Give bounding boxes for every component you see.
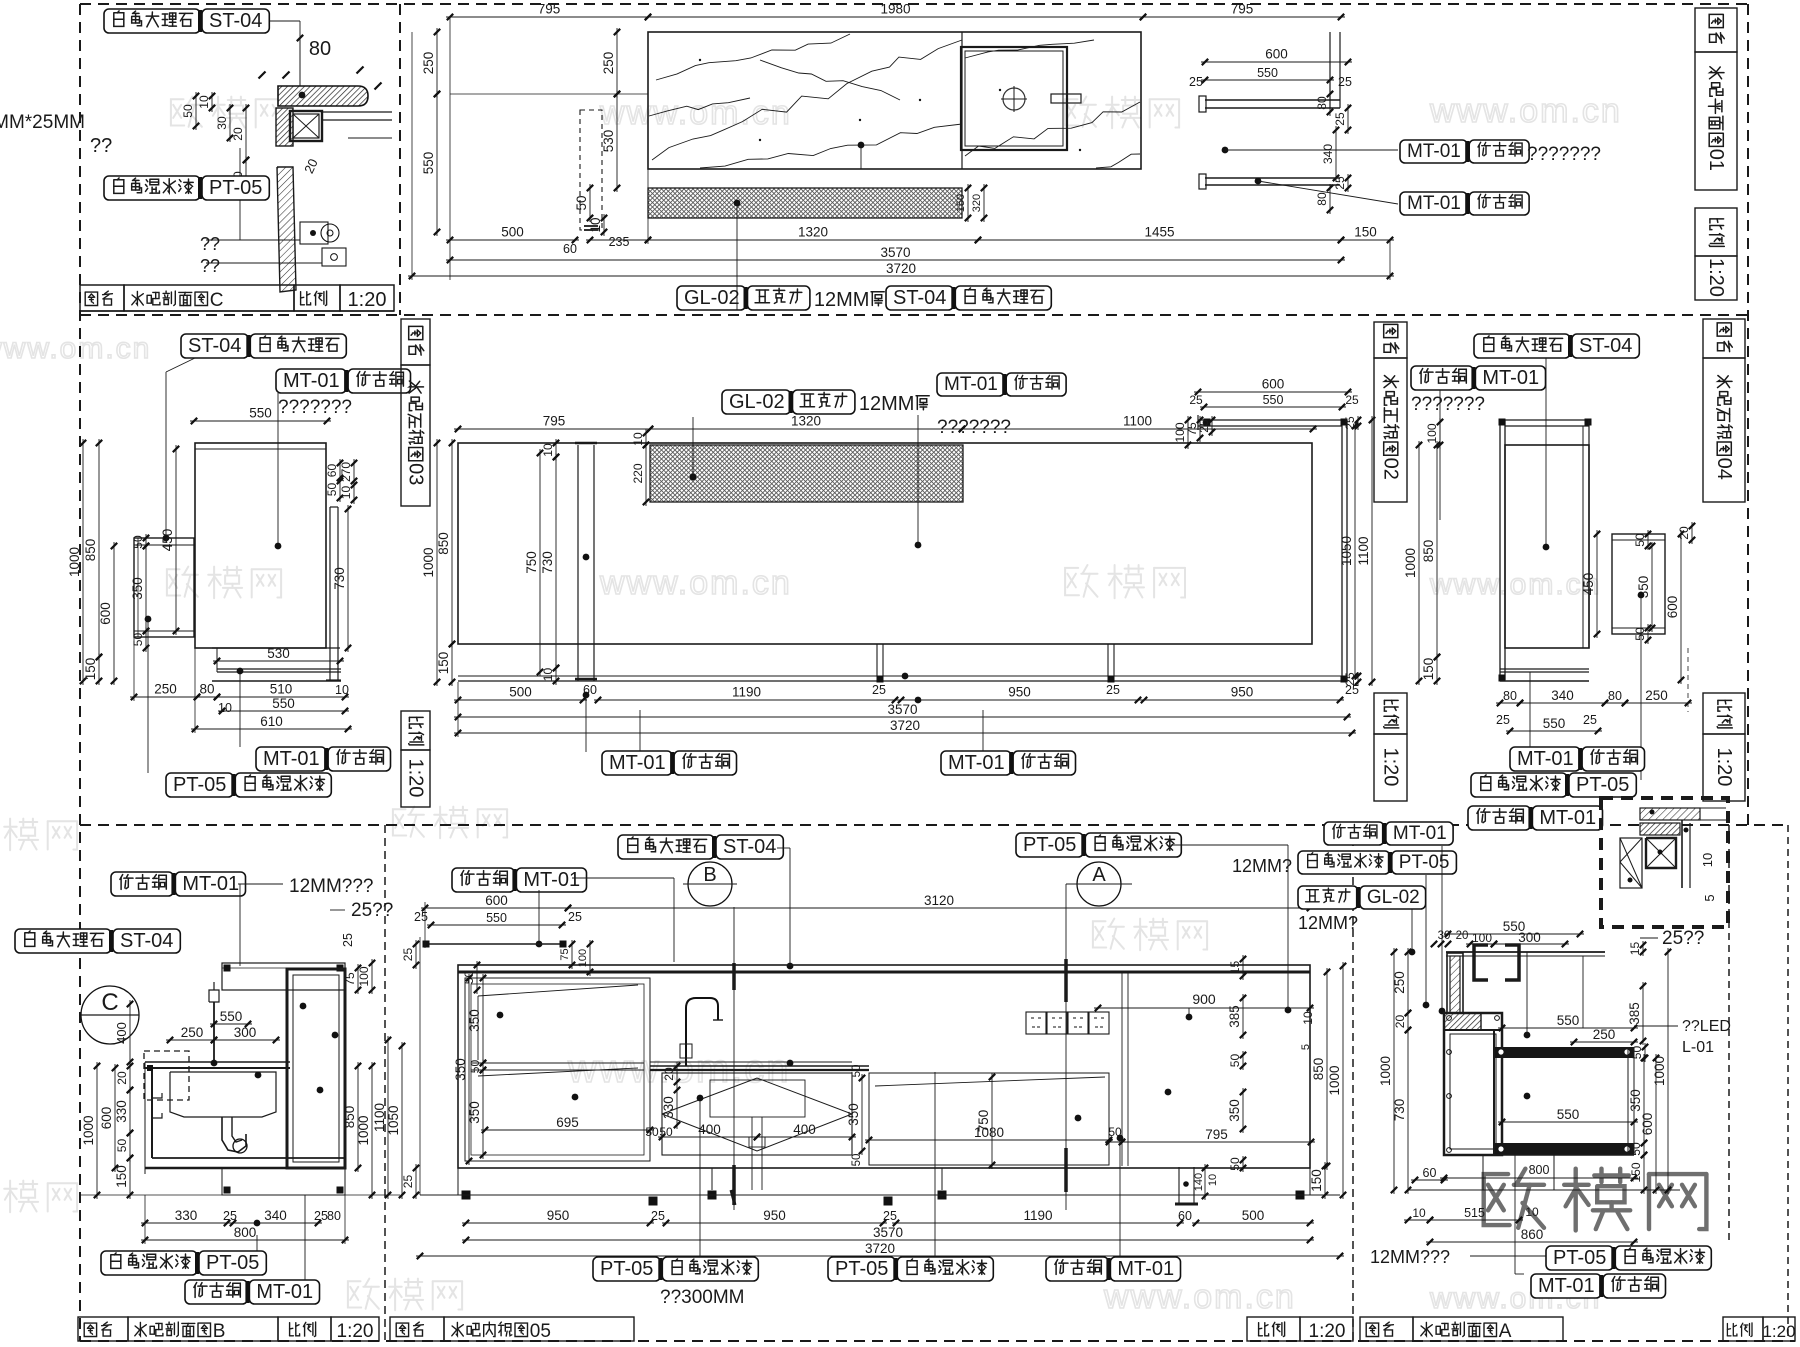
strip 03 bbox=[401, 319, 430, 365]
svg-text:1980: 1980 bbox=[880, 2, 910, 17]
svg-text:PT-05: PT-05 bbox=[835, 1258, 888, 1280]
svg-text:10: 10 bbox=[1525, 1205, 1539, 1219]
svg-text:25MM*25MM: 25MM*25MM bbox=[0, 112, 85, 133]
counter mid line bbox=[650, 1061, 852, 1063]
svg-text:ST-04: ST-04 bbox=[188, 335, 241, 357]
svg-text:1190: 1190 bbox=[1023, 1208, 1052, 1223]
svg-text:25??: 25?? bbox=[351, 900, 393, 921]
dim 550 top bbox=[190, 420, 331, 422]
svg-text:250: 250 bbox=[154, 682, 177, 697]
svg-text:150: 150 bbox=[1354, 225, 1377, 240]
svg-text:1000: 1000 bbox=[1327, 1065, 1342, 1095]
detail marker A bbox=[1077, 862, 1121, 906]
svg-text:04: 04 bbox=[1713, 458, 1735, 480]
svg-text:MT-01: MT-01 bbox=[256, 1281, 313, 1303]
watermark 欧模网 mid-left bbox=[167, 569, 180, 595]
svg-text:1080: 1080 bbox=[974, 1125, 1004, 1140]
dims bottom bbox=[454, 699, 587, 701]
svg-text:10: 10 bbox=[339, 486, 353, 500]
section B right dims bbox=[357, 1062, 359, 1172]
svg-text:PT-05: PT-05 bbox=[600, 1258, 653, 1280]
svg-text:15: 15 bbox=[1628, 942, 1642, 956]
far right divider bbox=[1121, 972, 1123, 1166]
svg-text:PT-05: PT-05 bbox=[1023, 834, 1076, 856]
view 02 left pillar bbox=[577, 445, 579, 681]
svg-text:795: 795 bbox=[1205, 1127, 1228, 1142]
svg-text:600: 600 bbox=[1640, 1113, 1655, 1136]
svg-text:MT-01: MT-01 bbox=[609, 752, 666, 774]
svg-text:GL-02: GL-02 bbox=[1367, 887, 1420, 908]
svg-text:12MM: 12MM bbox=[859, 393, 915, 415]
section B counter bbox=[145, 1061, 290, 1063]
svg-text:150: 150 bbox=[114, 1165, 129, 1188]
svg-text:50: 50 bbox=[1228, 1054, 1242, 1068]
vein dots bbox=[699, 59, 701, 61]
svg-text:25: 25 bbox=[1197, 419, 1211, 433]
dim 795 bbox=[454, 428, 654, 430]
section B labels top bbox=[111, 872, 173, 896]
svg-text:02: 02 bbox=[1380, 458, 1402, 480]
svg-text:MT-01: MT-01 bbox=[948, 752, 1005, 774]
svg-text:1000: 1000 bbox=[67, 547, 82, 577]
leg with dims bbox=[1178, 1167, 1180, 1204]
hinge bbox=[300, 222, 328, 244]
svg-text:1050: 1050 bbox=[386, 1105, 401, 1135]
svg-text:330: 330 bbox=[661, 1096, 676, 1119]
svg-text:25: 25 bbox=[1106, 683, 1120, 697]
svg-text:MT-01: MT-01 bbox=[182, 873, 239, 895]
svg-text:250: 250 bbox=[1593, 1027, 1616, 1042]
section A left post hatch bbox=[1450, 956, 1460, 1013]
view 05 top labels bbox=[618, 835, 714, 859]
svg-text:80: 80 bbox=[199, 682, 214, 697]
section A dots bbox=[1524, 1032, 1531, 1039]
section cut line A bbox=[1065, 884, 1067, 1210]
dim 550 bbox=[436, 90, 438, 236]
dim 1000 bbox=[436, 439, 438, 686]
view 04 bottom labels bbox=[1510, 747, 1580, 771]
svg-text:550: 550 bbox=[220, 1009, 243, 1024]
svg-text:???????: ??????? bbox=[278, 397, 352, 418]
svg-text:50: 50 bbox=[1633, 533, 1647, 547]
blocking cross box bbox=[293, 114, 319, 138]
svg-text:25: 25 bbox=[1189, 75, 1203, 89]
svg-text:50: 50 bbox=[181, 104, 195, 118]
svg-text:795: 795 bbox=[1231, 2, 1254, 17]
svg-text:PT-05: PT-05 bbox=[173, 774, 226, 796]
svg-text:MT-01: MT-01 bbox=[1407, 141, 1461, 162]
svg-text:03: 03 bbox=[405, 463, 427, 485]
svg-text:25: 25 bbox=[1583, 713, 1597, 727]
svg-text:300: 300 bbox=[1518, 930, 1541, 945]
svg-text:750: 750 bbox=[524, 551, 539, 574]
svg-text:350: 350 bbox=[1628, 1089, 1643, 1112]
svg-text:550: 550 bbox=[272, 696, 295, 711]
svg-text:12MM???: 12MM??? bbox=[289, 876, 374, 897]
svg-text:10: 10 bbox=[631, 432, 645, 446]
svg-text:300: 300 bbox=[234, 1025, 257, 1040]
svg-text:795: 795 bbox=[543, 414, 566, 429]
svg-text:150: 150 bbox=[1421, 658, 1436, 681]
plan view 01 counter outline bbox=[648, 32, 1141, 169]
svg-text:500: 500 bbox=[509, 685, 532, 700]
svg-text:80: 80 bbox=[1315, 192, 1329, 206]
shelf lines right bbox=[322, 111, 392, 113]
svg-text:950: 950 bbox=[763, 1208, 786, 1223]
svg-text:385: 385 bbox=[1227, 1005, 1242, 1028]
wall substrate hatch bbox=[276, 108, 293, 146]
svg-text:MT-01: MT-01 bbox=[1538, 1275, 1595, 1297]
view 04 dims bbox=[1439, 418, 1441, 449]
svg-text:www.om.cn: www.om.cn bbox=[599, 94, 792, 132]
svg-text:600: 600 bbox=[98, 602, 113, 625]
svg-text:550: 550 bbox=[1557, 1013, 1580, 1028]
detail marker B bbox=[688, 862, 732, 906]
svg-text:MT-01: MT-01 bbox=[1393, 823, 1447, 844]
svg-text:695: 695 bbox=[556, 1115, 579, 1130]
svg-text:3120: 3120 bbox=[924, 893, 954, 908]
title bar A bbox=[1360, 1317, 1413, 1341]
section B top slab bbox=[222, 963, 345, 990]
view 02 acrylic bar bbox=[650, 445, 963, 502]
svg-text:MT-01: MT-01 bbox=[263, 748, 320, 770]
svg-text:3720: 3720 bbox=[865, 1241, 895, 1256]
svg-text:950: 950 bbox=[1008, 685, 1031, 700]
section A counter top bbox=[1446, 951, 1605, 953]
svg-text:250: 250 bbox=[1645, 688, 1668, 703]
svg-text:10: 10 bbox=[541, 443, 555, 457]
svg-text:1:20: 1:20 bbox=[337, 1321, 374, 1342]
section A screws bbox=[1447, 1016, 1452, 1021]
sink in plan bbox=[961, 47, 1067, 150]
sockets bbox=[1026, 1012, 1046, 1034]
svg-text:25: 25 bbox=[883, 1209, 897, 1223]
svg-text:550: 550 bbox=[486, 911, 507, 925]
svg-text:25: 25 bbox=[401, 1175, 415, 1189]
svg-text:150: 150 bbox=[83, 658, 98, 681]
watermark 欧模网 top-left bbox=[171, 99, 184, 125]
svg-text:50: 50 bbox=[131, 633, 145, 647]
svg-text:B: B bbox=[213, 1321, 226, 1342]
view 03 labels bbox=[181, 334, 248, 358]
svg-text:900: 900 bbox=[1192, 991, 1216, 1007]
svg-text:350: 350 bbox=[846, 1103, 861, 1126]
svg-text:20: 20 bbox=[115, 1071, 129, 1085]
view 04 left post bbox=[1499, 420, 1501, 680]
svg-text:25: 25 bbox=[314, 1209, 328, 1223]
legs 05 bbox=[462, 1191, 471, 1200]
svg-text:400: 400 bbox=[698, 1122, 721, 1137]
svg-text:1320: 1320 bbox=[798, 225, 828, 240]
svg-text:25: 25 bbox=[1496, 713, 1510, 727]
svg-text:1000: 1000 bbox=[356, 1115, 371, 1145]
view 05 leaders top bbox=[777, 847, 790, 849]
svg-text:www.om.cn: www.om.cn bbox=[1103, 1278, 1296, 1316]
svg-text:MT-01: MT-01 bbox=[1482, 367, 1539, 389]
label MT-01 top bbox=[1400, 140, 1467, 163]
svg-text:850: 850 bbox=[436, 532, 451, 555]
right compartment door bbox=[869, 1073, 1109, 1165]
svg-text:50: 50 bbox=[115, 1139, 129, 1153]
svg-text:50: 50 bbox=[131, 535, 145, 549]
svg-text:350: 350 bbox=[1227, 1099, 1242, 1122]
view 03 wall cabinet bbox=[134, 538, 194, 637]
svg-text:25: 25 bbox=[872, 683, 886, 697]
svg-text:20: 20 bbox=[1456, 930, 1469, 942]
svg-text:???????: ??????? bbox=[1411, 394, 1485, 415]
detail bubble content bbox=[1640, 808, 1700, 820]
dim 600 bbox=[1201, 61, 1352, 63]
svg-text:50: 50 bbox=[1633, 627, 1647, 641]
svg-text:150: 150 bbox=[1309, 1169, 1324, 1192]
svg-text:340: 340 bbox=[1321, 144, 1335, 164]
title bar 05 bbox=[390, 1317, 444, 1341]
svg-text:30: 30 bbox=[1438, 930, 1451, 942]
svg-text:320: 320 bbox=[971, 194, 983, 212]
sink bowl section B bbox=[170, 1072, 276, 1117]
svg-text:515: 515 bbox=[1464, 1206, 1485, 1220]
svg-text:PT-05: PT-05 bbox=[1553, 1247, 1606, 1269]
svg-text:1000: 1000 bbox=[81, 1115, 96, 1145]
view 04 labels bbox=[1474, 334, 1570, 358]
svg-text:MT-01: MT-01 bbox=[1117, 1258, 1174, 1280]
dim 795 right bbox=[1139, 16, 1345, 18]
svg-text:A: A bbox=[1092, 864, 1106, 886]
svg-text:MT-01: MT-01 bbox=[1539, 807, 1596, 829]
svg-text:1050: 1050 bbox=[1339, 536, 1354, 566]
svg-text:950: 950 bbox=[1231, 685, 1254, 700]
svg-text:400: 400 bbox=[793, 1122, 816, 1137]
detail marker C bbox=[81, 986, 139, 1044]
svg-text:800: 800 bbox=[234, 1225, 257, 1240]
svg-text:730: 730 bbox=[1392, 1099, 1407, 1122]
svg-text:1100: 1100 bbox=[1356, 536, 1371, 565]
view 04 base bbox=[1500, 668, 1589, 670]
dim 900 bbox=[1094, 1007, 1314, 1009]
svg-text:www.om.cn: www.om.cn bbox=[0, 332, 151, 365]
svg-text:100: 100 bbox=[357, 966, 371, 986]
svg-text:25: 25 bbox=[1345, 393, 1359, 407]
svg-text:3570: 3570 bbox=[880, 245, 910, 260]
svg-text:795: 795 bbox=[538, 2, 561, 17]
view 05 bottom dims bbox=[462, 1222, 654, 1224]
svg-text:MT-01: MT-01 bbox=[1517, 748, 1574, 770]
marble counter top hatch bbox=[278, 86, 368, 106]
svg-text:80: 80 bbox=[327, 1209, 341, 1223]
svg-text:235: 235 bbox=[609, 235, 630, 249]
svg-text:ST-04: ST-04 bbox=[120, 930, 173, 952]
svg-text:50: 50 bbox=[325, 483, 339, 497]
svg-text:10: 10 bbox=[1301, 1011, 1315, 1025]
svg-text:250: 250 bbox=[181, 1025, 204, 1040]
svg-text:01: 01 bbox=[1705, 149, 1727, 171]
svg-text:1:20: 1:20 bbox=[1705, 258, 1727, 297]
svg-text:350: 350 bbox=[130, 577, 145, 600]
title bar B bbox=[78, 1317, 128, 1341]
svg-text:20: 20 bbox=[231, 127, 245, 141]
marble veins bbox=[652, 40, 962, 160]
svg-text:ST-04: ST-04 bbox=[209, 10, 262, 32]
view 03 bottom labels bbox=[256, 747, 326, 771]
view 05 left dims bbox=[387, 1036, 389, 1199]
svg-text:500: 500 bbox=[1242, 1208, 1265, 1223]
section A label leaders bbox=[1425, 875, 1427, 1003]
svg-text:MT-01: MT-01 bbox=[283, 370, 340, 392]
towel rails plan bbox=[1205, 99, 1340, 101]
view 02 right post and rail bbox=[1341, 420, 1343, 682]
svg-text:3720: 3720 bbox=[886, 261, 916, 276]
svg-text:60: 60 bbox=[563, 242, 577, 256]
svg-text:330: 330 bbox=[175, 1208, 198, 1223]
svg-text:MT-01: MT-01 bbox=[523, 869, 580, 891]
svg-text:600: 600 bbox=[1262, 377, 1285, 392]
svg-text:100: 100 bbox=[1425, 423, 1439, 443]
svg-text:12MM: 12MM bbox=[814, 289, 870, 311]
svg-text:ST-04: ST-04 bbox=[723, 836, 776, 858]
svg-text:385: 385 bbox=[1627, 1002, 1642, 1025]
svg-text:80: 80 bbox=[1503, 689, 1517, 703]
svg-text:PT-05: PT-05 bbox=[209, 177, 262, 199]
svg-text:C: C bbox=[210, 290, 224, 311]
svg-text:ST-04: ST-04 bbox=[893, 287, 946, 309]
svg-text:60: 60 bbox=[1178, 1209, 1192, 1223]
section C small dims bbox=[211, 92, 213, 112]
svg-text:10: 10 bbox=[1207, 1174, 1219, 1186]
section B left dims bbox=[129, 1000, 131, 1066]
svg-text:25??: 25?? bbox=[1662, 928, 1704, 949]
section A top dims bbox=[1444, 933, 1584, 935]
svg-text:500: 500 bbox=[501, 225, 524, 240]
dim 795 bbox=[446, 16, 652, 18]
svg-text:25: 25 bbox=[414, 910, 428, 924]
svg-text:12MM???: 12MM??? bbox=[1370, 1247, 1450, 1267]
page border dashed bbox=[80, 3, 1748, 5]
svg-text:550: 550 bbox=[1557, 1107, 1580, 1122]
svg-text:850: 850 bbox=[1421, 540, 1436, 563]
svg-text:100: 100 bbox=[577, 949, 589, 967]
svg-text:50: 50 bbox=[851, 1065, 863, 1078]
svg-text:50: 50 bbox=[1629, 1142, 1643, 1156]
svg-text:5: 5 bbox=[1300, 1044, 1312, 1050]
svg-text:140: 140 bbox=[1193, 1173, 1205, 1191]
svg-text:1:20: 1:20 bbox=[348, 289, 387, 311]
svg-text:C: C bbox=[101, 989, 118, 1016]
door panel section bbox=[277, 167, 296, 292]
svg-text:???????: ??????? bbox=[937, 417, 1011, 438]
svg-text:75: 75 bbox=[343, 972, 357, 986]
svg-text:10: 10 bbox=[197, 95, 211, 109]
view 03 base detail bbox=[212, 647, 340, 649]
svg-text:350: 350 bbox=[453, 1058, 468, 1081]
dim 1000 bbox=[82, 439, 84, 685]
svg-text:??300MM: ??300MM bbox=[660, 1287, 745, 1308]
svg-text:600: 600 bbox=[1665, 596, 1680, 619]
svg-text:60: 60 bbox=[1423, 1166, 1437, 1180]
svg-text:50: 50 bbox=[851, 1154, 863, 1167]
svg-text:550: 550 bbox=[1263, 393, 1284, 407]
view 02 bottom labels bbox=[602, 751, 672, 775]
strip 01 bbox=[1695, 8, 1737, 52]
thick dashed callout on section bbox=[1474, 945, 1488, 980]
svg-text:www.om.cn: www.om.cn bbox=[1429, 92, 1622, 130]
svg-text:730: 730 bbox=[540, 551, 555, 574]
svg-text:B: B bbox=[703, 864, 716, 886]
interior left compartments bbox=[465, 978, 650, 1161]
p-trap bbox=[222, 1117, 246, 1152]
svg-text:600: 600 bbox=[1265, 47, 1288, 62]
faucet plan bbox=[1051, 94, 1081, 103]
svg-text:3570: 3570 bbox=[873, 1225, 903, 1240]
svg-text:850: 850 bbox=[83, 539, 98, 562]
svg-text:800: 800 bbox=[1529, 1163, 1550, 1177]
svg-text:530: 530 bbox=[267, 646, 290, 661]
title bar section C bbox=[80, 285, 124, 311]
section A base bbox=[1444, 1154, 1634, 1156]
svg-text:50: 50 bbox=[645, 1125, 659, 1139]
svg-text:25: 25 bbox=[651, 1209, 665, 1223]
svg-text:??LED: ??LED bbox=[1682, 1018, 1731, 1035]
svg-text:1:20: 1:20 bbox=[405, 759, 427, 798]
section B labels bottom bbox=[101, 1251, 197, 1275]
svg-text:3720: 3720 bbox=[890, 718, 920, 733]
svg-text:12MM?: 12MM? bbox=[1232, 856, 1292, 876]
svg-text:20: 20 bbox=[1677, 526, 1691, 540]
wall rail above counter bbox=[426, 943, 563, 945]
svg-text:1000: 1000 bbox=[1378, 1056, 1393, 1086]
svg-text:25: 25 bbox=[568, 910, 582, 924]
svg-text:A: A bbox=[1499, 1321, 1512, 1342]
section B bottom dims bbox=[141, 1222, 231, 1224]
dim 500 bbox=[446, 239, 579, 241]
svg-text:??: ?? bbox=[200, 256, 220, 276]
view 03 right column bbox=[329, 507, 331, 680]
label 仿古铜 MT-01 between bands bbox=[1468, 806, 1530, 830]
svg-text:15: 15 bbox=[1228, 961, 1242, 975]
view 02 counter outline bbox=[458, 443, 1312, 644]
svg-text:60: 60 bbox=[325, 464, 339, 478]
watermark 欧模网 big bottom-right bbox=[1484, 1174, 1510, 1225]
svg-text:1190: 1190 bbox=[732, 685, 761, 700]
svg-text:80: 80 bbox=[309, 38, 331, 60]
watermark 欧模网 mid-center bbox=[1065, 568, 1079, 595]
section A right dims bbox=[1642, 941, 1644, 956]
svg-text:MT-01: MT-01 bbox=[1407, 193, 1461, 214]
acrylic bar hatch plan bbox=[648, 188, 962, 218]
view 02 top labels bbox=[722, 390, 791, 414]
svg-text:PT-05: PT-05 bbox=[206, 1252, 259, 1274]
svg-text:12MM?: 12MM? bbox=[1298, 913, 1358, 933]
view 05 outline bbox=[458, 965, 1310, 1168]
section cut line B bbox=[733, 907, 735, 1210]
svg-text:550: 550 bbox=[421, 152, 436, 175]
svg-text:L-01: L-01 bbox=[1682, 1039, 1714, 1056]
svg-text:25: 25 bbox=[1345, 683, 1359, 697]
view 03 main rect bbox=[195, 443, 326, 648]
svg-text:340: 340 bbox=[264, 1208, 287, 1223]
svg-text:GL-02: GL-02 bbox=[684, 287, 740, 309]
section A shelves bbox=[1495, 1047, 1634, 1058]
svg-text:ST-04: ST-04 bbox=[1579, 335, 1632, 357]
detail bubble dashed bbox=[1601, 798, 1728, 927]
svg-text:860: 860 bbox=[1521, 1227, 1544, 1242]
svg-text:30: 30 bbox=[215, 116, 229, 130]
svg-text:610: 610 bbox=[260, 714, 283, 729]
svg-text:25: 25 bbox=[1333, 112, 1347, 126]
svg-text:600: 600 bbox=[99, 1107, 114, 1130]
label 白色混水漆 PT-05 bbox=[104, 176, 200, 200]
svg-text:510: 510 bbox=[270, 682, 293, 697]
dashed appliance bbox=[144, 1051, 189, 1100]
